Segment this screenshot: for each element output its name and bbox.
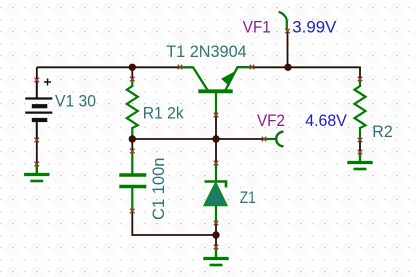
pin marker collector bbox=[178, 65, 183, 70]
label T1 2N3904 bbox=[166, 42, 247, 61]
svg-text:V1 30: V1 30 bbox=[55, 92, 96, 111]
svg-text:VF1: VF1 bbox=[243, 17, 271, 36]
svg-text:3.99V: 3.99V bbox=[292, 17, 337, 36]
wire: battery bottom to ground bbox=[36, 139, 38, 164]
pin marker base bbox=[214, 113, 219, 118]
pin marker battery top bbox=[35, 78, 40, 83]
voltage probe VF2 bbox=[265, 132, 284, 147]
value 3.99V bbox=[292, 17, 337, 36]
wire: transistor base down to node B bbox=[215, 115, 217, 139]
pin marker ground left bbox=[35, 162, 40, 167]
wire: battery top lead bbox=[36, 67, 38, 80]
zener diode Z1 bbox=[205, 163, 227, 223]
label R1 2k bbox=[143, 104, 185, 123]
pin marker R2 top bbox=[358, 77, 363, 82]
value 4.68V bbox=[305, 111, 347, 130]
junction node at VF1/emitter bbox=[284, 64, 291, 71]
svg-text:C1 100n: C1 100n bbox=[149, 158, 168, 221]
junction node at base/zener bbox=[212, 135, 219, 142]
pin marker VF2 bbox=[262, 137, 267, 142]
ground below battery bbox=[24, 163, 49, 181]
battery V1 bbox=[25, 80, 52, 139]
wire: node B right to VF2 probe bbox=[216, 138, 264, 140]
wire: R1 top lead stub bbox=[131, 67, 133, 80]
svg-text:R1 2k: R1 2k bbox=[143, 104, 185, 123]
pin marker C1 bottom bbox=[130, 209, 135, 214]
wire: zener bottom to bottom node bbox=[215, 223, 217, 235]
svg-text:Z1: Z1 bbox=[240, 188, 256, 207]
svg-text:VF2: VF2 bbox=[257, 111, 285, 130]
pin marker R2 bottom bbox=[358, 138, 363, 143]
pin marker C1 top bbox=[130, 149, 135, 154]
wire: R1 node to transistor collector pin bbox=[132, 66, 180, 68]
voltage probe VF1 bbox=[279, 12, 287, 31]
svg-text:R2: R2 bbox=[372, 122, 393, 141]
wire: node B down to zener Z1 bbox=[215, 139, 217, 163]
pin marker zener top bbox=[214, 161, 219, 166]
label R2 bbox=[372, 122, 393, 141]
ground below zener bbox=[203, 247, 228, 265]
wire: VF1 node to R2 top bbox=[288, 67, 360, 80]
resistor R1 bbox=[127, 80, 138, 139]
label VF2 bbox=[257, 111, 285, 130]
resistor R2 bbox=[355, 80, 366, 139]
pin marker ground middle bbox=[214, 245, 219, 250]
wire: R2 bottom to ground bbox=[359, 139, 361, 163]
wire: R1 bottom down to C1 bbox=[131, 139, 133, 151]
pin marker emitter bbox=[250, 65, 255, 70]
transistor Q1 (T1) bbox=[180, 67, 252, 115]
ground below R2 bbox=[347, 151, 372, 169]
pin marker ground right bbox=[358, 150, 363, 155]
pin marker R1 top bbox=[130, 77, 135, 82]
pin marker zener bottom bbox=[214, 221, 219, 226]
wire: emitter pin to VF1 node bbox=[252, 66, 288, 68]
wire: top rail from battery to R1 node bbox=[37, 66, 133, 68]
pin marker VF1 bbox=[285, 29, 290, 34]
label VF1 bbox=[243, 17, 271, 36]
battery plus sign bbox=[44, 79, 51, 86]
wire: VF1 probe stem down to VF1 node bbox=[287, 31, 289, 67]
wire: node B horizontal R1 bottom to base node bbox=[132, 138, 216, 140]
svg-text:4.68V: 4.68V bbox=[305, 111, 347, 130]
label V1 30 bbox=[55, 92, 96, 111]
label C1 100n (rotated) bbox=[149, 158, 168, 221]
pin marker battery bottom bbox=[35, 138, 40, 143]
junction node at R1 top bbox=[129, 64, 136, 71]
label Z1 bbox=[240, 188, 256, 207]
capacitor C1 bbox=[119, 151, 146, 211]
wire: C1 bottom to bottom rail bbox=[132, 211, 216, 235]
junction node at R1 bottom bbox=[129, 135, 136, 142]
svg-text:T1 2N3904: T1 2N3904 bbox=[166, 42, 247, 61]
junction node at bottom rail bbox=[212, 231, 219, 238]
wire: bottom node to ground bbox=[215, 235, 217, 247]
